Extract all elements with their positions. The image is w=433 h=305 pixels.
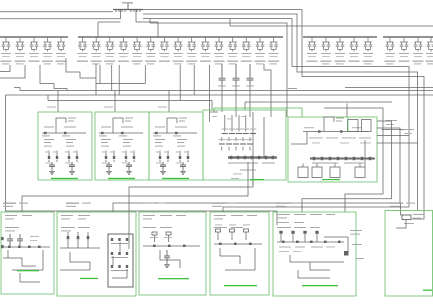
bottom block PWR6 border (385, 211, 433, 297)
block U5 IC1 rectangle (348, 120, 359, 132)
wire into block LED2 (114, 91, 116, 113)
block U5 green entry wire (347, 117, 349, 132)
decoupling bus segment D (383, 36, 433, 38)
wire B4 to bottom box2 (129, 182, 253, 249)
long left vertical wire down to bottom row (6, 95, 278, 225)
bottom block PWR4 border (210, 212, 269, 295)
capacitor pair C16a/C16b on bus drop (215, 37, 224, 52)
block PWR4 texts (214, 215, 226, 216)
block PWR4 component row (216, 229, 221, 232)
block LED3 input step wire (167, 118, 177, 133)
capacitor C101 on vertical wire (233, 64, 240, 84)
wire drop x=119.2 (118, 65, 120, 95)
block U5 output IC row (298, 167, 308, 178)
block U5 output wire 2 (113, 128, 400, 212)
block LED1 lower caps (49, 162, 55, 170)
block U5 text row 2 (312, 142, 320, 145)
capacitor pair C4a/C4b on bus drop (43, 37, 52, 52)
hierarchical block U4 border (203, 110, 286, 180)
block PWR4 green name label (224, 285, 257, 286)
block LED3 label texts (155, 127, 165, 128)
block U5 output wire 3 (223, 136, 409, 213)
hierarchical block LED3 border (149, 112, 203, 180)
wire into block at far right (401, 203, 404, 215)
wire drop x=180 to mid rail (179, 65, 181, 101)
hierarchical block LED1 border (38, 112, 92, 180)
block PWR3 rail (143, 245, 200, 247)
mid horizontal wire y=102 to right blocks (245, 102, 392, 110)
block PWR6 connector component (402, 215, 411, 220)
bottom block PWR5 border (273, 212, 356, 296)
capacitor pair C5a/C5b on bus drop (57, 37, 66, 52)
capacitor pair C14a/C14b on bus drop (187, 37, 196, 52)
block PWR2 shield box (108, 234, 133, 287)
block PWR2 component row (67, 236, 70, 239)
block U5 IC2 rectangle (362, 120, 372, 132)
wire drop x=100 with horizontal (96, 65, 145, 84)
block LED2 rail (99, 132, 143, 134)
texts above bottom box4 (212, 203, 225, 204)
block PWR1 capacitors (7, 234, 13, 246)
block PWR6 wire (396, 220, 406, 229)
block PWR4 rail (214, 243, 262, 245)
mid horizontal wire y=100 (48, 95, 212, 110)
block LED3 transistor cluster (159, 156, 161, 159)
block PWR2 lower wires (60, 252, 90, 270)
block PWR1 green name label (17, 270, 39, 271)
net label +3V3 at top center (122, 2, 133, 3)
wire step down-right (40, 65, 67, 91)
capacitor pair C17a/C17b on bus drop (228, 37, 237, 52)
capacitor pair C27a/C27b on bus drop (400, 37, 409, 52)
texts above bottom box1 (3, 203, 16, 204)
block PWR5 extra texts (326, 246, 335, 249)
block U5 output wire 1 (302, 121, 392, 212)
block LED2 text grid (101, 139, 111, 140)
pin label above LED2 (104, 107, 113, 108)
decoupling bus segment B (78, 36, 283, 38)
block PWR5 component row (279, 231, 282, 234)
wire stub y=129.5 (382, 129, 410, 131)
capacitor pair C19a/C19b on bus drop (256, 37, 265, 52)
wire continues into block U4 (249, 84, 251, 117)
pin label above LED3 (158, 107, 167, 108)
block LED3 lower caps (160, 162, 166, 170)
block U5 input step wire (324, 117, 334, 132)
block U5 rail (303, 131, 368, 133)
wire into block LED1 (57, 91, 59, 113)
block PWR4 stair wires (220, 248, 255, 270)
capacitor pair C23a/C23b on bus drop (336, 37, 345, 52)
block PWR5 wire corner 1 (324, 237, 348, 255)
block U5 left entry wire (291, 132, 307, 145)
capacitor pair C11a/C11b on bus drop (147, 37, 156, 52)
block PWR5 texts (277, 214, 290, 215)
block PWR3 capacitor (164, 250, 170, 263)
decoupling bus segment C (303, 36, 377, 38)
block PWR2 rail (60, 247, 100, 249)
power junction bar (113, 9, 143, 11)
capacitor pair C9a/C9b on bus drop (119, 37, 128, 52)
power rail right y=14 routed down at x=297 across to x=416 (143, 14, 418, 143)
text label near rail (288, 88, 297, 89)
power rail y=26 right section (230, 19, 433, 26)
wire rail y=87.5 right (345, 87, 433, 89)
wire from C row to left edge 1 (0, 65, 10, 72)
block LED1 input step wire (56, 118, 66, 133)
block PWR5 stair wires (290, 255, 344, 278)
texts above bottom box6 (390, 203, 403, 204)
capacitor pair C15a/C15b on bus drop (201, 37, 210, 52)
block U4 green name label (250, 179, 264, 180)
long horizontal rail y=95 (6, 94, 433, 96)
wire drop x=194 (193, 65, 195, 95)
block PWR1 rail (3, 246, 50, 248)
shield box components (111, 238, 113, 241)
capacitor pair C24a/C24b on bus drop (350, 37, 359, 52)
bottom block PWR3 border (139, 212, 206, 295)
capacitor pair C25a/C25b on bus drop (364, 37, 373, 52)
power rail stub from bar to bus feed (98, 10, 158, 38)
wire into block LED3 (168, 91, 170, 113)
block U4 dense component band (228, 156, 277, 158)
block U4 input pin labels (212, 115, 217, 118)
green net wire (214, 108, 302, 117)
block LED2 transistor cluster (105, 156, 107, 159)
block PWR1 lower wires (20, 273, 40, 282)
block PWR6 green name label (423, 290, 432, 291)
wire drop x=209.5 into U4 (209, 65, 211, 122)
bottom block PWR2 border (57, 212, 136, 296)
capacitor pair C22a/C22b on bus drop (322, 37, 331, 52)
wire right staircase A (324, 108, 383, 212)
capacitor pair C21a/C21b on bus drop (308, 37, 317, 52)
block U5 green name label (322, 179, 340, 180)
capacitor pair C12a/C12b on bus drop (160, 37, 169, 52)
capacitor pair C2a/C2b on bus drop (16, 37, 25, 52)
capacitor pair C29a/C29b on bus drop (427, 37, 433, 52)
block U5 right vertical wire (364, 140, 366, 167)
component value text row (1, 61, 12, 62)
block U5 dense component band (310, 158, 375, 160)
block LED1 transistor cluster (48, 156, 50, 159)
power rail left y=11.7 (0, 11, 113, 13)
block U4 lower texts (240, 170, 256, 171)
block PWR3 green name label (158, 278, 189, 279)
net name texts right of U5 (386, 120, 397, 121)
block LED3 text grid (155, 139, 165, 140)
decoupling bus segment A (0, 36, 68, 38)
power rail left y=18.7 (0, 10, 121, 19)
capacitor C102 on vertical wire (247, 64, 254, 84)
power rail right y=18.5 routed down at x=292 across to x=408 (143, 19, 409, 136)
capacitor pair C26a/C26b on bus drop (386, 37, 395, 52)
wire from C row to left edge 2 (0, 65, 25, 78)
block PWR1 extra texts (30, 235, 39, 238)
block PWR3 wires (160, 250, 180, 268)
block PWR3 component cluster 1 (152, 232, 157, 235)
block U4 component row 2 (219, 143, 225, 145)
block LED1 green name label (51, 178, 78, 179)
wire continues into block U4 (221, 84, 223, 112)
block U5 output wire 4 (377, 143, 418, 211)
block U4 component row 1 (222, 133, 228, 135)
hierarchical block LED2 border (95, 112, 149, 180)
block PWR5 component blob (344, 251, 349, 256)
texts above bottom box5 (276, 203, 289, 204)
block LED1 text grid (44, 139, 54, 140)
block PWR5 rail (277, 241, 344, 243)
block LED2 label texts (101, 127, 111, 128)
block PWR2 texts (61, 215, 73, 216)
block LED3 green name label (162, 178, 189, 179)
block LED2 input step wire (113, 118, 123, 133)
capacitor pair C1a/C1b on bus drop (2, 37, 11, 52)
long horizontal rail y=90.5 (14, 88, 433, 91)
wire drop x=111.7 (111, 65, 113, 91)
block U4 top jog wire (210, 111, 219, 113)
capacitor pair C18a/C18b on bus drop (242, 37, 251, 52)
hierarchical block U5 border (288, 117, 377, 182)
capacitor pair C7a/C7b on bus drop (92, 37, 101, 52)
texts above bottom box2 (66, 203, 79, 204)
block LED2 lower caps (106, 162, 112, 170)
texts above bottom box3 (143, 203, 154, 204)
capacitor pair C28a/C28b on bus drop (414, 37, 423, 52)
block PWR5 mid texts (279, 247, 291, 248)
power rail right y=9.5 routed down at x=302 across to x=424 down to block (143, 10, 424, 220)
block U5 text row 1 (309, 137, 323, 140)
block PWR1 edge connector marks (1, 237, 4, 240)
wire corner into U5 top (346, 104, 348, 118)
block PWR1 stair wires (3, 250, 43, 270)
block PWR1 texts (5, 215, 17, 216)
block U4 lower stub wires (248, 162, 253, 182)
wire jog near x=267 (264, 64, 271, 117)
pin label above LED1 (47, 107, 56, 108)
block LED1 label texts (44, 127, 54, 128)
power rail y=23 routed down at x=287 into block U5 (150, 19, 287, 118)
block LED2 green name label (108, 178, 135, 179)
block LED1 rail (42, 132, 86, 134)
block U4 inner vertical wires (225, 112, 264, 185)
reference designator text row (2, 63, 10, 64)
wire B4 to bottom box1 (22, 182, 248, 212)
wire step from x=66 (66, 58, 96, 95)
block PWR5 green name label (302, 285, 338, 286)
capacitor C100 on vertical wire (219, 64, 226, 84)
capacitor pair C13a/C13b on bus drop (174, 37, 183, 52)
bottom block PWR1 border (1, 212, 54, 294)
capacitor pair C3a/C3b on bus drop (30, 37, 39, 52)
capacitor pair C6a/C6b on bus drop (78, 37, 87, 52)
capacitor pair C8a/C8b on bus drop (106, 37, 115, 52)
wire continues into block U4 (235, 84, 237, 117)
capacitor pair C20a/C20b on bus drop (269, 37, 278, 52)
block PWR3 texts (143, 215, 155, 216)
block PWR2 green name label (80, 278, 98, 279)
block LED3 rail (153, 132, 197, 134)
capacitor pair C10a/C10b on bus drop (133, 37, 142, 52)
